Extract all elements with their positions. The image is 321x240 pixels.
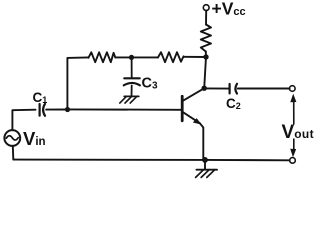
terminal +Vcc [203, 5, 209, 11]
capacitor C1 [40, 104, 45, 116]
arrow down [290, 139, 296, 157]
wire [12, 146, 15, 160]
wire [205, 11, 207, 25]
terminal output bottom [290, 158, 296, 164]
svg-text:C1: C1 [33, 90, 48, 105]
node collector J3 [202, 86, 207, 91]
wire [13, 159, 289, 162]
wire [204, 52, 206, 89]
svg-text:+Vcc: +Vcc [212, 0, 246, 19]
wire [132, 56, 159, 58]
svg-text:C2: C2 [226, 96, 241, 111]
resistor R1 [88, 52, 115, 62]
ground [196, 160, 217, 178]
svg-text:Vin: Vin [23, 128, 46, 149]
ground [120, 96, 139, 103]
wire [46, 109, 67, 111]
node base junction [65, 107, 70, 112]
capacitor C3 [124, 57, 140, 96]
capacitor C2 [230, 84, 237, 94]
wire [238, 88, 290, 90]
source Vin [4, 130, 20, 146]
resistor R3 [201, 25, 211, 52]
transistor Q1 [182, 88, 204, 159]
wire [67, 108, 181, 110]
resistor R2 [158, 52, 184, 62]
node J1 [129, 55, 134, 60]
svg-text:Vout: Vout [282, 122, 315, 143]
node emitter J4 [202, 157, 208, 163]
wire [67, 57, 88, 109]
arrow up [290, 94, 296, 124]
wire [115, 56, 131, 58]
terminal output top [290, 86, 296, 92]
wire [12, 110, 35, 131]
node J2 [203, 54, 208, 59]
wire [204, 87, 229, 89]
svg-text:C3: C3 [142, 76, 158, 92]
wire [184, 56, 207, 58]
